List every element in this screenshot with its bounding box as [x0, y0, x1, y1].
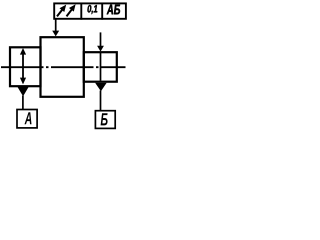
frame divider 1 [80, 3, 82, 20]
datum B box [95, 111, 115, 129]
shaft right journal (datum B surface) [84, 52, 117, 81]
shaft left journal (datum A surface) [10, 47, 41, 86]
total radial runout symbol: arrow 2 [67, 4, 76, 16]
shaft large middle cylinder (toleranced surface) [41, 37, 84, 97]
tolerance value 0,1 [88, 5, 98, 14]
centerline (axis, dash-dot) [1, 66, 126, 68]
datum B leader line [100, 91, 102, 112]
leader from frame to middle cylinder [55, 19, 57, 32]
measuring double arrow inside left journal [20, 48, 26, 84]
background [0, 0, 129, 131]
feature control frame border [54, 3, 126, 18]
datum B triangle [95, 83, 107, 91]
arrowhead on right journal top [97, 46, 104, 52]
total radial runout symbol: arrow 1 [57, 5, 66, 17]
frame divider 2 [101, 3, 103, 20]
datum letter Б [101, 113, 108, 125]
datum letter А [24, 112, 31, 124]
measurement line through right journal [100, 53, 102, 81]
measurement arrow onto right journal [100, 32, 102, 46]
datum reference letters АБ [107, 5, 120, 15]
leader arrowhead on cylinder top [52, 31, 59, 37]
datum A triangle [18, 87, 29, 96]
datum A leader line [22, 96, 24, 111]
datum A box [17, 110, 37, 128]
